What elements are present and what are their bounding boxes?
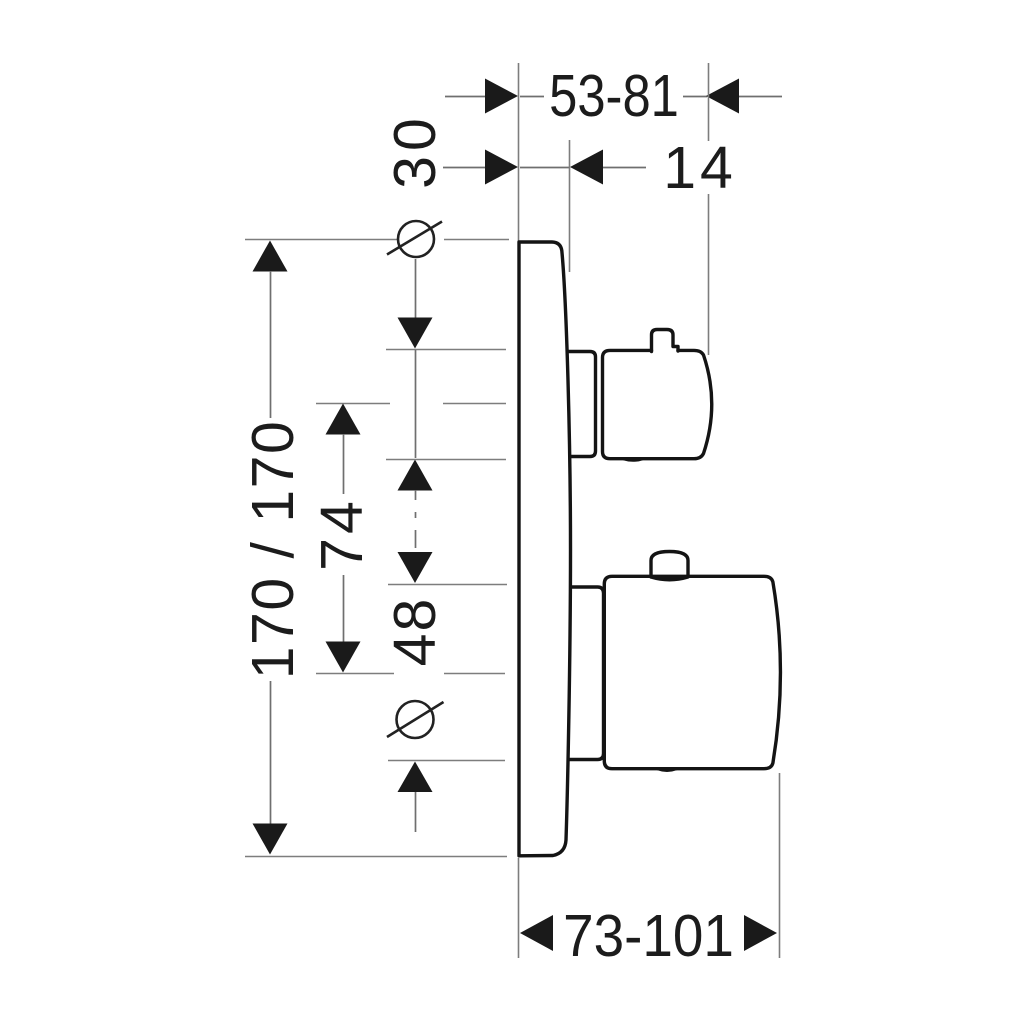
dimension 73-101 arrow right-pointing bbox=[744, 915, 777, 951]
wall line above plate bbox=[518, 63, 520, 241]
dimension 14 arrow right-pointing at wall bbox=[485, 150, 518, 185]
bottom extension line y=856 bbox=[245, 856, 507, 858]
top extension line y=239 right of phi bbox=[444, 239, 509, 241]
dimension phi30 arrow down bbox=[398, 318, 433, 349]
svg-text:74: 74 bbox=[309, 497, 375, 571]
svg-text:30: 30 bbox=[382, 113, 448, 189]
dimension 74 arrow down bbox=[326, 642, 361, 673]
phi48 extension line y=584.5 bbox=[388, 584, 507, 586]
dimension 74 bottom extension line y=673 right bbox=[444, 673, 505, 675]
lower knob bottom notch bbox=[658, 769, 676, 771]
wall line below plate bbox=[518, 858, 520, 958]
dimension 73-101 arrow left-pointing bbox=[520, 915, 553, 951]
escutcheon plate profile bbox=[519, 242, 571, 856]
svg-text:170 / 170: 170 / 170 bbox=[240, 420, 306, 680]
phi30 inner line bbox=[415, 350, 417, 458]
dimension 53-81 line before left arrow bbox=[683, 96, 707, 98]
dimension 170/170 line upper bbox=[270, 271, 272, 418]
phi48 dashed stem segments bbox=[415, 490, 417, 500]
dimension 170/170 arrow up bbox=[253, 241, 288, 272]
svg-text:48: 48 bbox=[382, 597, 448, 667]
diameter symbol top bbox=[398, 221, 434, 257]
phi30 extension line y=349 bbox=[386, 349, 506, 351]
lower handle knob bbox=[604, 576, 780, 768]
dimension 53-81 arrow right-pointing bbox=[485, 79, 518, 114]
dimension phi48 arrow down bbox=[398, 552, 433, 583]
dimension 14 line right tail bbox=[603, 167, 646, 169]
dimension 53-81 line left bbox=[445, 96, 486, 98]
dimension 74 line lower bbox=[343, 575, 345, 642]
top extension line y=239 left of phi bbox=[245, 239, 397, 241]
dimension 74 top extension line y=403 right bbox=[443, 403, 506, 405]
phi48 tail line below arrow bbox=[415, 792, 417, 832]
dimension phi30 arrow up bbox=[398, 460, 433, 491]
svg-text:73-101: 73-101 bbox=[563, 903, 734, 969]
dimension 53-81 line right tail bbox=[739, 96, 782, 98]
svg-text:14: 14 bbox=[663, 135, 737, 201]
lower handle tab bbox=[651, 552, 688, 580]
phi30 extension line y=459 bbox=[386, 459, 506, 461]
dimension 53-81 arrow left-pointing bbox=[706, 79, 739, 114]
svg-text:53-81: 53-81 bbox=[549, 62, 679, 128]
dimension 74 line upper bbox=[343, 434, 345, 494]
extension line x=708 lower segment to knob bbox=[708, 194, 710, 355]
dimension 170/170 line lower bbox=[270, 681, 272, 824]
dimension 14 line left bbox=[443, 167, 486, 169]
upper valve stem sleeve bbox=[563, 352, 596, 457]
dimension 74 bottom extension line y=673 left bbox=[316, 673, 394, 675]
dimension 170/170 arrow down bbox=[253, 824, 288, 855]
dimension phi48 arrow up bbox=[398, 762, 433, 793]
upper knob bottom notch bbox=[624, 459, 642, 460]
dimension 53-81 line stub right of wall bbox=[520, 96, 544, 98]
extension line x=708 upper segment bbox=[708, 63, 710, 141]
extension line x=569 bbox=[569, 140, 571, 272]
dimension 14 arrow left-pointing bbox=[570, 150, 603, 185]
dimension 73-101 right extension line x=779 bbox=[779, 773, 781, 958]
dimension phi30 stem line from circle bbox=[415, 259, 417, 318]
upper handle knob bbox=[603, 350, 712, 458]
dimension 14 line between arrows bbox=[520, 167, 570, 169]
lower valve stem sleeve bbox=[565, 587, 604, 760]
diameter symbol bottom bbox=[397, 701, 434, 738]
dimension 74 arrow up bbox=[326, 404, 361, 435]
phi48 extension line y=760 bbox=[388, 760, 505, 762]
dimension 74 top extension line y=403 left bbox=[316, 403, 390, 405]
upper handle tab bbox=[652, 330, 679, 352]
